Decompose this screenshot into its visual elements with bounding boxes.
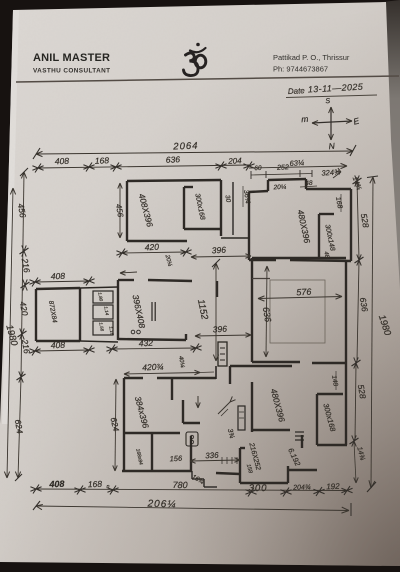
door arrow down [197,396,199,408]
stair step box3 [93,321,113,335]
bottom wall left [122,470,192,472]
svg-text:636: 636 [166,154,181,164]
porch sub dims line [251,174,312,176]
bath2 left wall [318,214,320,258]
top wall right seg [306,188,351,190]
dining bottom wall a [252,361,300,363]
svg-text:408: 408 [55,156,70,166]
sitout top wall [36,288,80,289]
central door jamb [218,342,227,366]
kitchen divider line [252,278,270,280]
left inner dim line [21,172,24,378]
svg-text:420: 420 [144,242,159,253]
dim 408 sitout bottom [35,350,89,351]
dim 420 under bed1 [122,252,186,253]
svg-text:168: 168 [88,479,103,489]
ruler ticks [221,457,223,464]
bath2 top stub [319,213,334,215]
svg-text:432: 432 [138,338,153,349]
porch step left [267,180,269,191]
hall door arrow [120,272,137,273]
dim 2064 top line [36,151,353,154]
bottom total 2061q line [36,506,349,511]
toilet right wall [287,466,289,483]
dim 1152 line [215,263,217,361]
dim 396 mid [195,335,251,336]
hall top wall a [118,279,134,281]
store left wall [183,187,185,229]
bedroom4 left wall [316,394,318,445]
svg-text:300: 300 [249,483,268,494]
bedroom1 top wall [127,180,221,181]
stair step box2 [93,305,113,319]
dim 624 mid-left [115,379,116,471]
hall bottom wall b [185,334,187,340]
wardrobe wall v172 [171,379,173,400]
passage wall v183 [182,400,184,423]
toilet top stub [240,447,245,449]
sitout-hall wall top [80,287,118,288]
right outer 1980 line [371,177,373,488]
bedroom4 top wall [317,393,343,395]
small room divider [151,433,153,471]
letterhead rule [16,76,399,82]
dim 396 upper [191,256,251,257]
paper edge highlight [2,10,19,424]
lobby wall v191 [190,436,192,471]
toilet left wall [239,448,241,483]
bedroom2 bottom wall b [290,260,351,261]
svg-text:192: 192 [326,482,340,491]
wall stub v302 [301,435,303,448]
dim row2 line [38,165,249,168]
svg-text:63¼: 63¼ [289,158,304,168]
svg-text:204¾: 204¾ [292,484,311,492]
bedroom2 bottom wall a [249,259,276,261]
bedroom1 bottom wall [127,240,187,242]
svg-text:m: m [301,114,309,125]
hall bottom wall a [118,339,186,340]
porch dim line [249,166,347,168]
svg-text:780: 780 [172,480,187,490]
porch top wall [268,179,306,180]
sink niche [238,406,245,430]
table edge strip right [383,0,400,330]
dim 336 [190,460,240,461]
bedroom3 bottom wall [124,432,180,434]
dim 456 bed1 line [119,183,121,238]
window marks wall [295,431,304,433]
dim 432 hall [112,348,196,349]
entry porch wall left seg [249,191,268,192]
entry steps [191,471,193,479]
bedroom3 top wall a [124,377,143,379]
house right wall upper [350,189,352,261]
svg-text:60: 60 [254,165,262,172]
svg-text:576: 576 [296,287,312,298]
verandah bottom wall [221,237,249,239]
sitout right wall [79,288,81,341]
hall right wall stub [216,281,218,297]
master bed top wall [230,365,292,367]
svg-text:252: 252 [276,164,289,171]
svg-text:336: 336 [205,451,219,461]
verandah edge wall [232,182,234,235]
right inner 636 line [357,261,359,361]
svg-text:20¼: 20¼ [272,184,287,192]
svg-text:396: 396 [211,245,226,256]
svg-text:S: S [325,98,331,105]
bedroom1 right wall [220,180,222,236]
svg-text:ANIL MASTER: ANIL MASTER [33,52,110,64]
svg-text:396: 396 [212,324,227,335]
passage wall v216 [215,366,217,379]
sitout bottom wall [36,340,80,342]
right inner 528 bottom line [355,364,356,440]
svg-text:156: 156 [169,454,183,464]
dining inner outline [270,280,325,343]
sitout left wall [35,289,37,341]
dining bottom wall b [312,362,346,364]
om symbol [184,43,206,76]
house right wall lower [345,363,347,445]
dim 420q hall [124,373,200,375]
right inner 528 top line [357,181,359,259]
sitout-hall wall bottom [80,341,118,342]
bedroom1 left wall [126,181,128,241]
passage wall h183 [183,422,200,424]
svg-text:n: n [106,484,109,490]
arrow ne 324 [333,172,341,178]
svg-text:Ph: 9744673867: Ph: 9744673867 [273,65,328,74]
door arrow ne [218,402,230,414]
store top stub [184,186,193,188]
hall top wall b [148,280,192,281]
svg-text:408: 408 [48,479,64,490]
wall stub v230 [229,366,231,384]
svg-text:204: 204 [227,156,242,166]
passage bottom wall [216,473,240,474]
bedroom4 bottom wall [317,444,347,446]
washbasin fixture [186,432,198,446]
hall door leaf [151,302,153,321]
bedroom3 left wall [123,378,125,472]
hall oo mark [131,330,135,334]
svg-text:Pattikad P. O., Thrissur: Pattikad P. O., Thrissur [273,53,350,62]
svg-text:420¾: 420¾ [142,361,164,372]
wall h mid-bottom [288,469,317,471]
svg-text:408: 408 [51,271,66,281]
svg-text:VASTHU CONSULTANT: VASTHU CONSULTANT [33,68,110,75]
compass cross [312,107,352,140]
svg-text:2064: 2064 [172,141,199,153]
hall left wall [117,280,119,340]
bottom dim row1 line [36,489,347,491]
porch step right [305,179,307,189]
svg-text:408: 408 [51,340,66,350]
dim 408 sitout top [35,281,89,282]
dim 636 dining [266,266,267,357]
bedroom3 top wall b [157,377,216,379]
toilet bottom wall [240,482,288,484]
dining left wall [251,258,253,362]
master bed left wall [251,382,253,432]
bedroom2 left wall [248,192,250,260]
toilet top wall [253,429,290,431]
left outer 1980 line [7,188,13,478]
stair step box1 [93,291,113,303]
svg-text:168: 168 [95,155,110,165]
svg-text:206¼: 206¼ [146,497,176,510]
dining top wall [252,257,346,259]
dim 576 [258,297,342,299]
date underline [286,95,377,98]
svg-text:324¾: 324¾ [321,167,340,177]
svg-text:Date: Date [288,86,306,96]
house right wall mid [345,260,347,363]
store bottom wall [184,228,221,230]
